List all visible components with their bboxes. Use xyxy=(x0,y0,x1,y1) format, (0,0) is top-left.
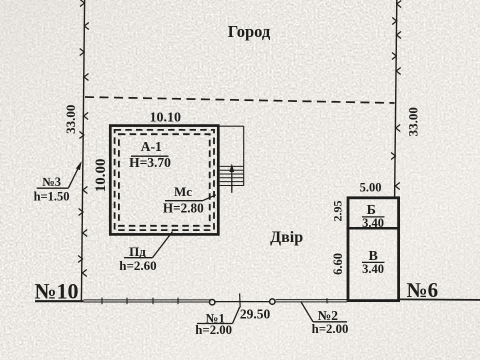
svg-text:10.10: 10.10 xyxy=(149,110,181,125)
porch stairs top edge xyxy=(220,125,244,127)
svg-text:Двір: Двір xyxy=(270,229,303,246)
fence double line right xyxy=(275,299,347,301)
svg-text:А-1: А-1 xyxy=(141,139,162,154)
gate post circle №2 xyxy=(270,299,275,304)
svg-text:h=2.60: h=2.60 xyxy=(119,258,156,273)
svg-text:5.00: 5.00 xyxy=(360,181,382,195)
svg-text:h=2.00: h=2.00 xyxy=(195,323,232,337)
dashed inner boundary line xyxy=(85,97,395,103)
porch stair treads xyxy=(220,166,244,185)
svg-text:Город: Город xyxy=(228,22,271,41)
svg-text:3.40: 3.40 xyxy=(362,216,384,230)
leader №1 xyxy=(233,307,240,324)
building Б/В outer wall xyxy=(348,198,399,301)
leader Мс xyxy=(203,195,216,201)
wall between Б and В xyxy=(347,227,400,230)
underline №2 xyxy=(313,321,347,323)
stairs direction arrow xyxy=(231,168,233,193)
fence post ticks xyxy=(102,298,178,305)
svg-text:10.00: 10.00 xyxy=(93,158,109,192)
underline №3 xyxy=(37,187,69,189)
svg-text:Пд: Пд xyxy=(129,244,146,259)
svg-text:h=1.50: h=1.50 xyxy=(34,190,70,204)
fraction bar Мс xyxy=(165,200,203,202)
svg-text:33.00: 33.00 xyxy=(406,107,421,136)
gate post circle №1 xyxy=(210,300,215,305)
svg-text:h=2.00: h=2.00 xyxy=(312,322,349,336)
svg-text:Н=2.80: Н=2.80 xyxy=(163,200,204,215)
fraction bar В xyxy=(362,261,385,263)
svg-text:29.50: 29.50 xyxy=(240,307,271,322)
building A-1 inner dashed contour 2 xyxy=(119,134,210,226)
leader Пд xyxy=(153,232,173,258)
fraction bar Б xyxy=(362,216,385,218)
svg-text:№2: №2 xyxy=(318,308,339,323)
svg-text:6.60: 6.60 xyxy=(331,253,345,275)
gate line xyxy=(215,301,269,303)
svg-text:№6: №6 xyxy=(406,278,438,302)
fraction bar А-1 xyxy=(131,155,169,157)
leader arrow №3 xyxy=(68,164,80,189)
underline №1 xyxy=(197,323,233,325)
svg-text:№10: №10 xyxy=(34,279,78,304)
svg-text:№3: №3 xyxy=(42,175,61,189)
fence tick xyxy=(326,298,328,303)
building A-1 inner dashed contour 1 xyxy=(115,130,214,230)
boundary line under №6 xyxy=(400,298,480,301)
left boundary line xyxy=(81,0,84,301)
leader №2 xyxy=(301,302,313,322)
left boundary tick marks xyxy=(78,0,89,277)
svg-text:33.00: 33.00 xyxy=(63,105,78,134)
street boundary line under №10 xyxy=(35,300,84,302)
right boundary line xyxy=(395,0,397,198)
svg-text:Н=3.70: Н=3.70 xyxy=(129,155,171,170)
fence double line left xyxy=(84,299,211,301)
svg-text:2.95: 2.95 xyxy=(330,201,344,222)
right boundary tick marks xyxy=(391,1,401,190)
measure tick 29.50 xyxy=(239,294,242,308)
svg-text:Мс: Мс xyxy=(174,184,192,199)
svg-text:3.40: 3.40 xyxy=(362,262,384,276)
building A-1 outer wall xyxy=(110,126,218,235)
porch stairs right edge xyxy=(243,126,245,186)
fraction bar Пд xyxy=(124,257,153,259)
